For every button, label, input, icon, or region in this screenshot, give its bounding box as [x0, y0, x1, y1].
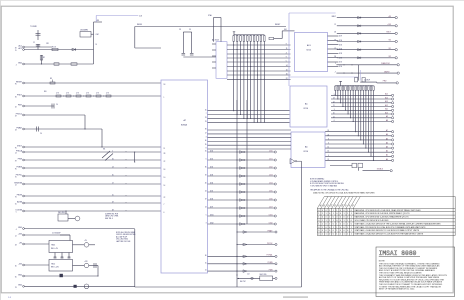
svg-text:47: 47 [334, 16, 336, 18]
svg-text:AC2: AC2 [19, 47, 23, 50]
svg-text:22: 22 [164, 197, 166, 199]
svg-text:20: 20 [333, 113, 335, 115]
svg-text:DO7: DO7 [339, 36, 342, 38]
svg-text:STAT RAM, LOCAL BUS DEVICE W T: STAT RAM, LOCAL BUS DEVICE W THE 2-4K BU… [355, 222, 442, 225]
svg-text:REG +5V: REG +5V [51, 248, 59, 250]
svg-text:RAM 4KNS, CPU DEVICE IN 2-4K B: RAM 4KNS, CPU DEVICE IN 2-4K BUS, WRITE … [355, 212, 411, 215]
svg-text:C2: C2 [33, 42, 35, 44]
svg-text:DIG1: DIG1 [210, 214, 214, 216]
svg-text:10: 10 [164, 177, 166, 179]
svg-text:15: 15 [15, 50, 17, 52]
svg-text:0 AND NOTED, CPU DEVICE W LOCA: 0 AND NOTED, CPU DEVICE W LOCAL BUS, REA… [313, 191, 375, 194]
svg-text:36: 36 [112, 158, 114, 160]
svg-text:21: 21 [327, 159, 329, 161]
svg-text:RESET: RESET [275, 24, 280, 26]
svg-text:C1 95000UF: C1 95000UF [52, 233, 61, 235]
svg-text:1: 1 [336, 230, 337, 232]
svg-text:PHOLD: PHOLD [16, 113, 23, 115]
svg-text:12: 12 [15, 236, 17, 238]
svg-text:11: 11 [286, 48, 288, 50]
svg-text:9602 OSD: 9602 OSD [260, 274, 268, 276]
svg-text:C9: C9 [189, 29, 191, 31]
svg-text:38: 38 [112, 209, 114, 211]
svg-text:0: 0 [351, 220, 352, 222]
svg-text:DO7: DO7 [269, 206, 272, 208]
svg-text:1: 1 [333, 213, 334, 215]
svg-text:DO1: DO1 [210, 158, 213, 160]
svg-text:1: 1 [333, 227, 334, 229]
svg-text:GND: GND [18, 62, 23, 64]
svg-text:32: 32 [15, 107, 17, 109]
svg-text:25: 25 [205, 109, 207, 111]
svg-text:0: 0 [333, 230, 334, 232]
svg-text:23: 23 [205, 121, 207, 123]
svg-text:0: 0 [318, 227, 319, 229]
svg-text:0: 0 [333, 223, 334, 225]
svg-text:ADSB: ADSB [17, 200, 23, 203]
svg-text:16: 16 [286, 74, 288, 76]
svg-text:1: 1 [340, 234, 341, 236]
svg-text:W1: W1 [103, 149, 105, 151]
svg-text:27: 27 [334, 48, 336, 50]
svg-text:DO0: DO0 [269, 150, 272, 152]
svg-text:CC BUF: CC BUF [364, 80, 370, 82]
svg-text:DO0: DO0 [339, 66, 342, 68]
svg-text:JUMPER W1 FOR: JUMPER W1 FOR [105, 214, 119, 216]
svg-text:GND: GND [18, 285, 23, 287]
svg-text:DO7: DO7 [210, 206, 213, 208]
svg-text:RAM 4KNS, CPU DEVICE AT 2-4K B: RAM 4KNS, CPU DEVICE AT 2-4K BUS, READ/W… [355, 216, 410, 219]
svg-text:0: 0 [336, 220, 337, 222]
svg-text:DO3: DO3 [269, 174, 272, 176]
svg-text:PDBIN: PDBIN [17, 166, 23, 168]
svg-text:0: 0 [322, 217, 323, 219]
svg-text:1: 1 [351, 234, 352, 236]
svg-text:24: 24 [205, 191, 207, 193]
svg-text:4.7K: 4.7K [76, 92, 79, 94]
svg-text:DO0: DO0 [210, 150, 213, 152]
svg-text:24: 24 [327, 134, 329, 136]
svg-text:4.7K: 4.7K [56, 92, 59, 94]
svg-text:BEST OF REGARDS MARCH 18, 2002: BEST OF REGARDS MARCH 18, 2002. [379, 288, 415, 291]
svg-text:DIG1: DIG1 [269, 214, 273, 216]
svg-text:0: 0 [340, 220, 341, 222]
svg-text:29: 29 [112, 201, 114, 203]
svg-text:C8: C8 [179, 29, 181, 31]
svg-text:21: 21 [333, 105, 335, 107]
svg-text:0: 0 [329, 234, 330, 236]
svg-text:17: 17 [205, 133, 207, 135]
svg-text:9: 9 [286, 57, 287, 59]
svg-text:R8: R8 [50, 78, 52, 80]
svg-text:0: 0 [333, 217, 334, 219]
svg-text:0: 0 [340, 217, 341, 219]
svg-text:25: 25 [205, 151, 207, 153]
svg-text:+5V: +5V [84, 240, 87, 242]
svg-text:1: 1 [322, 220, 323, 222]
svg-text:2: 2 [335, 63, 336, 65]
svg-text:VI1: VI1 [388, 48, 391, 50]
svg-text:A1 8224: A1 8224 [212, 38, 219, 41]
svg-text:1: 1 [322, 223, 323, 225]
svg-text:7812: 7812 [51, 263, 55, 265]
svg-text:VI2: VI2 [388, 56, 391, 58]
svg-text:DO4: DO4 [210, 182, 213, 184]
svg-text:R40 TSC: R40 TSC [240, 281, 246, 283]
svg-text:18: 18 [164, 84, 166, 86]
svg-text:86: 86 [334, 56, 336, 58]
svg-text:35: 35 [112, 174, 114, 176]
svg-text:DO5: DO5 [210, 190, 213, 192]
svg-text:VI0: VI0 [388, 40, 391, 42]
svg-text:1: 1 [336, 234, 337, 236]
svg-text:C4: C4 [56, 104, 58, 106]
svg-text:C6: C6 [40, 133, 42, 135]
svg-text:0: 0 [344, 230, 345, 232]
svg-text:6: 6 [164, 212, 165, 214]
svg-text:DIG2: DIG2 [269, 222, 273, 224]
svg-text:1: 1 [347, 220, 348, 222]
svg-text:1: 1 [326, 220, 327, 222]
svg-text:78: 78 [15, 287, 17, 289]
svg-text:0: 0 [318, 234, 319, 236]
svg-text:0: 0 [336, 217, 337, 219]
svg-text:18: 18 [164, 169, 166, 171]
svg-text:1/4W 5% UNLESS NOTED: 1/4W 5% UNLESS NOTED [116, 234, 136, 236]
svg-text:1: 1 [322, 213, 323, 215]
svg-text:R1 1K: R1 1K [52, 46, 56, 48]
svg-text:STAT RAM, LOCAL BUS DEVICE TO: STAT RAM, LOCAL BUS DEVICE TO 2-4K BUS F… [355, 233, 424, 236]
svg-text:STAT RAM, LOCAL BUS DEVICE TO: STAT RAM, LOCAL BUS DEVICE TO 2-4K BUS F… [355, 229, 420, 232]
svg-text:9: 9 [286, 44, 287, 46]
svg-text:40: 40 [205, 183, 207, 185]
svg-text:C12: C12 [247, 274, 250, 276]
svg-text:0: 0 [336, 213, 337, 215]
svg-text:13: 13 [205, 207, 207, 209]
svg-text:2MHZ CPU OPER.: 2MHZ CPU OPER. [105, 216, 119, 218]
svg-text:18: 18 [15, 130, 17, 132]
svg-text:39: 39 [205, 129, 207, 131]
svg-text:-7: -7 [334, 71, 335, 73]
svg-text:18.000MHZ: 18.000MHZ [80, 29, 88, 31]
svg-text:7: 7 [164, 204, 165, 206]
svg-text:4.7K: 4.7K [86, 92, 89, 94]
svg-text:13: 13 [327, 151, 329, 153]
svg-text:87: 87 [15, 161, 17, 163]
svg-text:0: 0 [326, 217, 327, 219]
svg-text:CR1: CR1 [46, 43, 49, 45]
svg-text:1: 1 [351, 230, 352, 232]
svg-text:0: 0 [329, 230, 330, 232]
svg-text:GND: GND [18, 274, 23, 276]
svg-text:+12V: +12V [84, 261, 88, 263]
svg-text:36: 36 [15, 97, 17, 99]
svg-text:R2: R2 [43, 57, 45, 59]
svg-text:0: 0 [329, 213, 330, 215]
svg-text:XRDY: XRDY [17, 145, 23, 147]
svg-text:21: 21 [205, 270, 207, 272]
svg-text:GND: GND [18, 227, 23, 229]
svg-text:DO2: DO2 [210, 166, 213, 168]
svg-text:PWR: PWR [18, 158, 23, 160]
svg-text:DO6: DO6 [269, 198, 272, 200]
svg-text:35: 35 [205, 144, 207, 146]
svg-text:DS1: DS1 [284, 29, 287, 31]
svg-text:27: 27 [112, 182, 114, 184]
svg-text:4.7K: 4.7K [96, 92, 99, 94]
svg-text:1: 1 [326, 213, 327, 215]
svg-text:PSYNC: PSYNC [267, 243, 273, 245]
svg-text:5: 5 [286, 61, 287, 63]
svg-text:0: 0 [340, 213, 341, 215]
svg-text:1: 1 [351, 213, 352, 215]
svg-text:SSWDSB: SSWDSB [14, 182, 23, 184]
svg-text:1: 1 [347, 210, 348, 212]
svg-text:15: 15 [112, 194, 114, 196]
svg-text:55: 55 [15, 204, 17, 206]
svg-text:13: 13 [112, 166, 114, 168]
svg-text:14: 14 [15, 153, 17, 155]
svg-text:N CPU RST/SELECT SWITCH FROM O: N CPU RST/SELECT SWITCH FROM ONE REG [310, 183, 345, 185]
svg-text:SOLO RAM, CPU DEVICE W 2-4K BU: SOLO RAM, CPU DEVICE W 2-4K BUS [355, 219, 390, 222]
svg-text:IMSAI 8080: IMSAI 8080 [379, 250, 417, 257]
svg-text:0: 0 [326, 210, 327, 212]
svg-text:1: 1 [326, 234, 327, 236]
svg-text:1: 1 [344, 220, 345, 222]
svg-text:82: 82 [15, 48, 17, 50]
svg-text:SEE TBL 4: SEE TBL 4 [105, 218, 113, 220]
svg-text:1: 1 [336, 227, 337, 229]
svg-text:1: 1 [347, 234, 348, 236]
svg-text:7805: 7805 [51, 245, 55, 247]
svg-text:T1 XFMR: T1 XFMR [30, 26, 38, 28]
svg-text:9601 POC: 9601 POC [58, 212, 66, 214]
svg-text:1: 1 [329, 223, 330, 225]
svg-text:18: 18 [327, 130, 329, 132]
svg-text:15: 15 [327, 147, 329, 149]
svg-text:DIG2: DIG2 [210, 222, 214, 224]
svg-text:DO2: DO2 [269, 166, 272, 168]
svg-text:RESIN: RESIN [137, 24, 143, 26]
svg-text:0: 0 [340, 223, 341, 225]
svg-text:1: 1 [164, 97, 165, 99]
svg-text:1: 1 [347, 213, 348, 215]
svg-text:REG +12V: REG +12V [51, 267, 60, 269]
svg-text:1: 1 [329, 220, 330, 222]
svg-text:0: 0 [329, 227, 330, 229]
svg-text:4: 4 [286, 53, 287, 55]
svg-text:8080A: 8080A [181, 124, 187, 127]
svg-text:29: 29 [15, 116, 17, 118]
svg-text:DO3: DO3 [210, 174, 213, 176]
svg-text:65: 65 [15, 277, 17, 279]
svg-text:0: 0 [351, 223, 352, 225]
svg-text:0: 0 [344, 210, 345, 212]
svg-text:PHI2: PHI2 [383, 81, 387, 83]
svg-text:DO6: DO6 [210, 198, 213, 200]
svg-text:0: 0 [333, 234, 334, 236]
svg-text:76: 76 [15, 197, 17, 199]
svg-text:1: 1 [333, 220, 334, 222]
svg-text:0: 0 [326, 223, 327, 225]
svg-text:1: 1 [351, 217, 352, 219]
svg-text:0: 0 [326, 227, 327, 229]
svg-text:19: 19 [96, 44, 98, 46]
svg-text:DO4: DO4 [269, 182, 272, 184]
svg-text:23: 23 [333, 98, 335, 100]
svg-text:46: 46 [334, 40, 336, 42]
svg-text:95: 95 [15, 169, 17, 171]
svg-text:PHANTOM: PHANTOM [381, 62, 390, 65]
svg-text:1: 1 [322, 234, 323, 236]
svg-text:4.7K: 4.7K [106, 92, 109, 94]
svg-text:0: 0 [318, 220, 319, 222]
svg-text:CR1-CR4 1N914: CR1-CR4 1N914 [116, 239, 128, 241]
svg-text:0: 0 [340, 210, 341, 212]
svg-text:1: 1 [347, 227, 348, 229]
svg-text:PSYNC: PSYNC [16, 174, 23, 176]
svg-text:11: 11 [164, 148, 166, 150]
svg-text:NOTE:: NOTE: [379, 260, 386, 262]
svg-text:DO5: DO5 [339, 44, 342, 46]
svg-text:1: 1 [347, 223, 348, 225]
svg-text:1: 1 [336, 223, 337, 225]
svg-text:PRDY: PRDY [17, 94, 23, 96]
svg-text:0: 0 [322, 230, 323, 232]
svg-text:1: 1 [344, 213, 345, 215]
svg-text:30: 30 [15, 266, 17, 268]
svg-text:21: 21 [333, 116, 335, 118]
svg-text:37: 37 [205, 199, 207, 201]
svg-text:RAM 4KNS, CPU DEVICE W LOCAL B: RAM 4KNS, CPU DEVICE W LOCAL BUS, READ F… [355, 209, 422, 212]
svg-text:28: 28 [164, 153, 166, 155]
svg-text:36: 36 [205, 255, 207, 257]
svg-text:0: 0 [344, 227, 345, 229]
svg-text:DODSB: DODSB [16, 209, 23, 211]
svg-text:0: 0 [344, 217, 345, 219]
svg-text:1: 1 [329, 217, 330, 219]
svg-text:1: 1 [318, 223, 319, 225]
svg-text:21: 21 [334, 24, 336, 26]
svg-text:95: 95 [15, 84, 17, 86]
svg-text:30: 30 [205, 140, 207, 142]
svg-text:DO5: DO5 [269, 190, 272, 192]
svg-text:0: 0 [340, 230, 341, 232]
svg-text:PHLDA: PHLDA [16, 149, 23, 152]
svg-text:0: 0 [318, 210, 319, 212]
svg-text:15: 15 [205, 262, 207, 264]
svg-text:22: 22 [286, 78, 288, 80]
svg-text:0: 0 [318, 230, 319, 232]
svg-text:PINTE: PINTE [17, 194, 23, 196]
svg-text:95: 95 [15, 148, 17, 150]
svg-text:1: 1 [351, 227, 352, 229]
svg-text:R10: R10 [44, 91, 47, 93]
svg-text:0: 0 [351, 210, 352, 212]
svg-text:36: 36 [205, 167, 207, 169]
svg-text:23: 23 [205, 117, 207, 119]
svg-text:1: 1 [333, 210, 334, 212]
svg-text:STAT RAM, CPU DEVICE W LOCAL B: STAT RAM, CPU DEVICE W LOCAL BUS CPU COM… [355, 226, 427, 229]
svg-text:0: 0 [347, 217, 348, 219]
svg-text:14: 14 [286, 65, 288, 67]
svg-text:MWRT: MWRT [384, 71, 389, 73]
svg-text:DO3: DO3 [339, 53, 342, 55]
svg-text:1: 1 [318, 217, 319, 219]
svg-text:28: 28 [15, 245, 17, 247]
svg-text:DO1: DO1 [339, 62, 342, 64]
svg-text:4.7K: 4.7K [66, 92, 69, 94]
svg-text:1: 1 [344, 234, 345, 236]
svg-text:DO1: DO1 [269, 158, 272, 160]
svg-text:12: 12 [15, 185, 17, 187]
svg-text:0: 0 [326, 230, 327, 232]
svg-text:70: 70 [15, 177, 17, 179]
svg-text:1: 1 [336, 210, 337, 212]
svg-text:0: 0 [322, 210, 323, 212]
svg-text:PWAIT: PWAIT [16, 126, 23, 129]
svg-text:0: 0 [340, 227, 341, 229]
svg-text:10: 10 [286, 70, 288, 72]
svg-text:0: 0 [344, 223, 345, 225]
svg-text:0: 0 [347, 230, 348, 232]
svg-text:PDBIN: PDBIN [268, 262, 274, 264]
svg-text:48: 48 [334, 32, 336, 34]
svg-text:22: 22 [164, 161, 166, 163]
svg-text:1: 1 [322, 227, 323, 229]
svg-text:22: 22 [333, 101, 335, 103]
svg-text:1: 1 [329, 210, 330, 212]
svg-text:19: 19 [205, 175, 207, 177]
svg-text:1: 1 [318, 213, 319, 215]
svg-text:14: 14 [164, 185, 166, 187]
svg-text:RESET: RESET [16, 81, 23, 83]
